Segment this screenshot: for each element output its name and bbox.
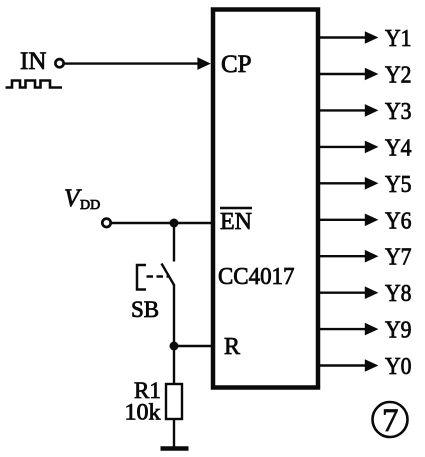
wire node B down to resistor R1	[173, 346, 175, 384]
value 10k	[125, 400, 162, 425]
label IN	[20, 48, 46, 75]
label Y4	[385, 135, 412, 161]
svg-text:R: R	[224, 334, 240, 360]
svg-text:Y2: Y2	[385, 63, 412, 89]
output Y5 arrow	[318, 177, 378, 190]
label Y7	[385, 245, 412, 271]
svg-text:CP: CP	[221, 51, 252, 78]
junction node at VDD/SB	[170, 219, 179, 228]
label Y3	[385, 99, 412, 125]
wire junction down to switch top contact	[173, 223, 175, 262]
svg-text:EN: EN	[220, 209, 252, 235]
output Y4 arrow	[318, 141, 378, 154]
label Y8	[385, 281, 412, 307]
label Y6	[385, 208, 412, 234]
resistor R1 body	[166, 384, 182, 419]
part value CC4017	[218, 264, 295, 290]
pushbutton SB actuator bracket	[137, 265, 146, 290]
pushbutton SB blade	[162, 264, 175, 286]
label Y9	[385, 318, 412, 344]
svg-text:Y0: Y0	[385, 354, 412, 380]
label Y2	[385, 63, 412, 89]
junction node at R pin branch	[170, 342, 179, 351]
wire node B to R pin	[174, 345, 213, 347]
svg-text:Y3: Y3	[385, 99, 412, 125]
output Y8 arrow	[318, 286, 378, 299]
output Y7 arrow	[318, 250, 378, 263]
output Y3 arrow	[318, 104, 378, 117]
svg-text:IN: IN	[20, 48, 46, 75]
input terminal IN (open circle)	[55, 59, 63, 67]
svg-text:Y8: Y8	[385, 281, 412, 307]
pin label EN (active low, overline)	[220, 208, 252, 235]
svg-text:Y6: Y6	[385, 208, 412, 234]
svg-text:Y4: Y4	[385, 135, 412, 161]
svg-text:CC4017: CC4017	[218, 264, 295, 290]
svg-text:Y7: Y7	[385, 245, 412, 271]
pin label R	[224, 334, 240, 360]
pushbutton SB actuator dashed link	[147, 275, 169, 278]
label Y5	[385, 172, 412, 198]
output Y2 arrow	[318, 68, 378, 81]
svg-text:SB: SB	[131, 297, 159, 322]
label Y1	[385, 26, 412, 52]
pulse waveform symbol	[6, 81, 63, 88]
label R1	[134, 378, 161, 403]
terminal VDD (open circle)	[102, 219, 110, 227]
svg-text:Y5: Y5	[385, 172, 412, 198]
label SB	[131, 297, 159, 322]
output Y6 arrow	[318, 214, 378, 227]
output Y9 arrow	[318, 323, 378, 336]
output Y1 arrow	[318, 31, 378, 44]
wire IN terminal to CP pin with arrowhead	[64, 57, 211, 70]
svg-text:10k: 10k	[125, 400, 162, 425]
svg-text:Y1: Y1	[385, 26, 412, 52]
wire resistor R1 to ground	[173, 419, 175, 447]
IC U1 CC4017 body	[213, 10, 318, 388]
wire VDD terminal to EN pin	[111, 222, 213, 224]
figure number 7 (circled)	[373, 402, 408, 439]
pin label CP	[221, 51, 252, 78]
wire switch bottom to node B	[173, 284, 175, 346]
ground	[161, 446, 189, 451]
label VDD	[64, 185, 100, 213]
svg-text:DD: DD	[80, 198, 100, 213]
svg-text:Y9: Y9	[385, 318, 412, 344]
output Y0 arrow	[318, 359, 378, 372]
label Y0	[385, 354, 412, 380]
svg-text:7: 7	[382, 403, 399, 439]
